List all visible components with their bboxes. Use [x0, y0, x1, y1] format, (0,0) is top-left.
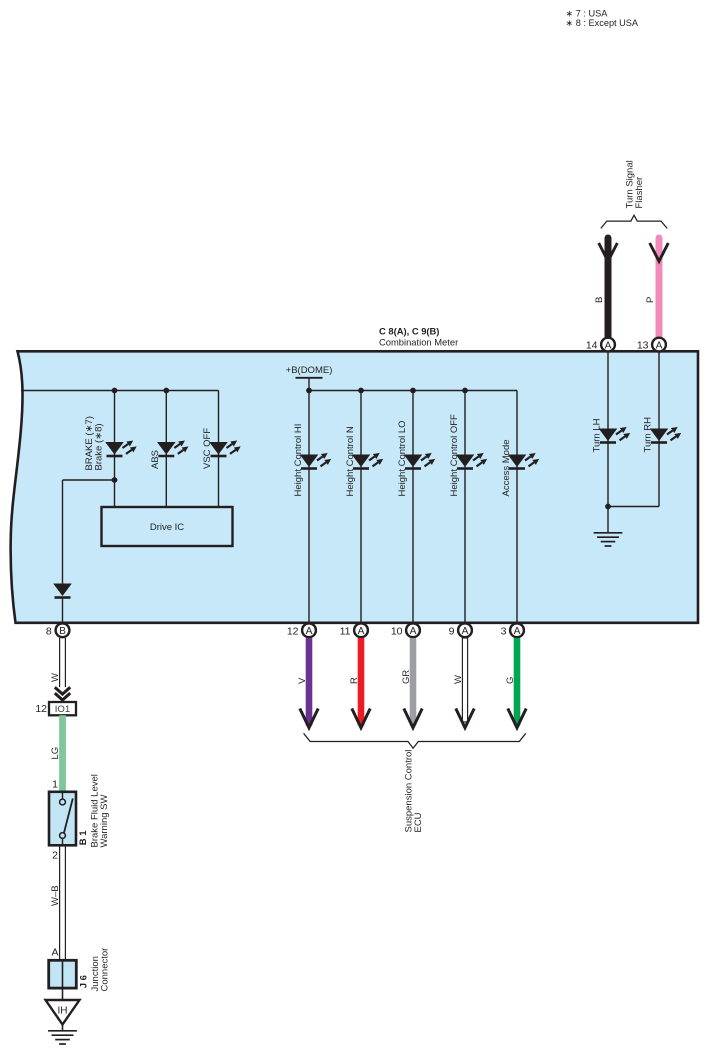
svg-text:Warning SW: Warning SW — [99, 795, 110, 848]
wire BRAKE branch horizontal — [63, 479, 115, 481]
svg-text:Height Control LO: Height Control LO — [397, 420, 408, 496]
node junction dot Height OFF column — [462, 388, 468, 394]
svg-text:J 6: J 6 — [79, 975, 90, 988]
svg-text:Turn LH: Turn LH — [592, 418, 603, 452]
LED indicator Height Control LO — [404, 453, 435, 469]
wire J6 to ground triangle — [62, 988, 64, 1000]
diode D1 in brake branch — [53, 584, 72, 598]
wire W white to suspension ECU — [462, 638, 467, 722]
wire Turn LH column — [607, 351, 609, 506]
arrowhead wire GR — [404, 709, 422, 728]
wire BRAKE lamp column — [114, 391, 116, 508]
node junction dot at BRAKE column on bus — [112, 388, 118, 394]
svg-text:IO1: IO1 — [55, 704, 70, 715]
svg-text:W–B: W–B — [50, 885, 61, 906]
wire R red to suspension ECU — [358, 638, 365, 726]
svg-text:Height Control OFF: Height Control OFF — [449, 414, 460, 497]
svg-text:Combination Meter: Combination Meter — [379, 337, 458, 348]
svg-text:IH: IH — [58, 1006, 68, 1017]
wire ABS lamp column — [165, 391, 167, 508]
svg-text:A: A — [306, 626, 313, 637]
svg-text:9: 9 — [449, 625, 455, 637]
svg-text:2: 2 — [52, 849, 58, 861]
LED indicator Height Control HI — [300, 453, 331, 469]
svg-text:W: W — [453, 675, 464, 684]
svg-text:P: P — [645, 297, 656, 303]
wire W white from pin 8 — [60, 638, 66, 687]
wire triangle tip to ground — [62, 1025, 64, 1031]
arrowhead wire W — [456, 709, 474, 728]
node junction dot at ABS column on bus — [163, 388, 169, 394]
arrowhead wire V — [300, 709, 318, 728]
svg-text:A: A — [51, 947, 58, 959]
wire Turn RH to Turn LH join — [608, 506, 659, 508]
pin 13 connector A — [637, 338, 666, 352]
connector IO1 — [35, 702, 76, 715]
svg-text:A: A — [410, 626, 417, 637]
svg-text:10: 10 — [391, 625, 403, 637]
LED indicator Turn LH — [599, 427, 630, 443]
brace Suspension Control ECU — [304, 733, 526, 748]
svg-text:ABS: ABS — [150, 450, 161, 469]
svg-text:ECU: ECU — [413, 812, 424, 832]
wire Turn RH column — [658, 351, 660, 506]
node +B(DOME) — [286, 365, 333, 391]
svg-text:Height Control HI: Height Control HI — [293, 424, 304, 497]
combination meter box U1 — [11, 351, 698, 623]
switch B1 Brake Fluid Level Warning SW — [49, 792, 76, 846]
pin 3 connector A — [501, 623, 524, 637]
pin 9 connector A — [449, 623, 472, 637]
svg-text:Brake (∗8): Brake (∗8) — [94, 423, 105, 470]
wire V violet to suspension ECU — [306, 638, 313, 726]
wire VSC OFF lamp column — [218, 391, 220, 508]
pin 8 connector B — [46, 623, 70, 637]
svg-text:C 8(A), C 9(B): C 8(A), C 9(B) — [379, 326, 439, 337]
svg-text:11: 11 — [340, 625, 351, 637]
svg-text:V: V — [297, 677, 308, 684]
arrowhead wire G — [508, 709, 526, 728]
svg-text:+B(DOME): +B(DOME) — [286, 365, 333, 376]
node junction dot Height N column — [358, 388, 364, 394]
svg-text:B: B — [59, 626, 66, 637]
svg-text:A: A — [605, 340, 612, 351]
svg-text:VSC OFF: VSC OFF — [202, 428, 213, 469]
svg-text:3: 3 — [501, 625, 507, 637]
svg-text:R: R — [349, 677, 360, 684]
svg-text:B: B — [594, 297, 605, 303]
node junction dot Height LO column — [410, 388, 416, 394]
LED indicator Access Mode — [508, 453, 539, 469]
svg-text:14: 14 — [586, 340, 598, 352]
arrowhead on wire B — [599, 243, 618, 261]
wire W-B white-black — [60, 845, 66, 960]
LED indicator VSC OFF — [209, 440, 240, 456]
svg-text:G: G — [505, 677, 516, 684]
svg-text:A: A — [462, 626, 469, 637]
LED indicator BRAKE — [105, 440, 136, 456]
svg-text:Flasher: Flasher — [634, 177, 645, 209]
svg-text:A: A — [656, 340, 663, 351]
svg-text:Drive IC: Drive IC — [150, 522, 184, 533]
wire GR gray to suspension ECU — [410, 638, 417, 726]
pin 12 connector A — [287, 623, 316, 637]
pin 10 connector A — [391, 623, 420, 637]
svg-text:A: A — [358, 626, 365, 637]
svg-text:13: 13 — [637, 340, 649, 352]
svg-text:12: 12 — [35, 703, 47, 715]
svg-text:12: 12 — [287, 625, 299, 637]
wire BRAKE branch vertical to diode — [62, 480, 64, 584]
svg-text:A: A — [514, 626, 521, 637]
wire Height Control LO column — [412, 391, 414, 623]
wire to internal ground — [607, 507, 609, 533]
svg-text:∗ 7 : USA: ∗ 7 : USA — [566, 8, 609, 18]
svg-text:Height Control N: Height Control N — [345, 426, 356, 496]
ground internal (combination meter) — [594, 533, 623, 546]
pin 11 connector A — [340, 623, 368, 637]
splice double chevron — [55, 687, 70, 700]
svg-text:Access Mode: Access Mode — [501, 439, 512, 496]
svg-text:1: 1 — [52, 779, 58, 791]
ground symbol IH — [48, 1031, 77, 1044]
LED indicator Height Control N — [352, 453, 383, 469]
wire Height Control OFF column — [464, 391, 466, 623]
wire Height Control HI column — [308, 391, 310, 623]
node junction dot BRAKE branch — [112, 477, 118, 483]
brace Turn Signal Flasher — [601, 215, 667, 228]
wire P pink from turn signal flasher — [656, 238, 663, 338]
wire diode to pin 8 — [62, 598, 64, 623]
wire G green to suspension ECU — [514, 638, 521, 726]
LED indicator Height Control OFF — [456, 453, 487, 469]
LED indicator ABS — [157, 440, 188, 456]
wire left supply bus — [21, 390, 219, 392]
LED indicator Turn RH — [650, 427, 681, 443]
svg-text:8: 8 — [46, 625, 52, 637]
pin 14 connector A — [586, 338, 615, 352]
node junction dot turn ground — [605, 504, 611, 510]
svg-text:W: W — [50, 673, 61, 682]
svg-text:GR: GR — [401, 670, 412, 684]
svg-text:Turn RH: Turn RH — [643, 417, 654, 453]
wire right supply bus — [309, 390, 517, 392]
svg-text:LG: LG — [50, 747, 61, 760]
arrowhead on wire P — [650, 243, 669, 261]
arrowhead wire R — [352, 709, 370, 728]
ground point IH triangle — [46, 1000, 80, 1025]
wire LG light green — [59, 715, 66, 792]
svg-text:B 1: B 1 — [78, 830, 89, 846]
wire B black from turn signal flasher — [605, 238, 612, 338]
junction connector J6 — [49, 960, 77, 988]
node junction dot Height HI column — [306, 388, 312, 394]
Drive IC block — [102, 507, 233, 546]
svg-text:∗ 8 : Except USA: ∗ 8 : Except USA — [566, 18, 639, 28]
wire Height Control N column — [360, 391, 362, 623]
svg-text:Connector: Connector — [100, 948, 111, 992]
wire Access Mode column — [516, 391, 518, 623]
